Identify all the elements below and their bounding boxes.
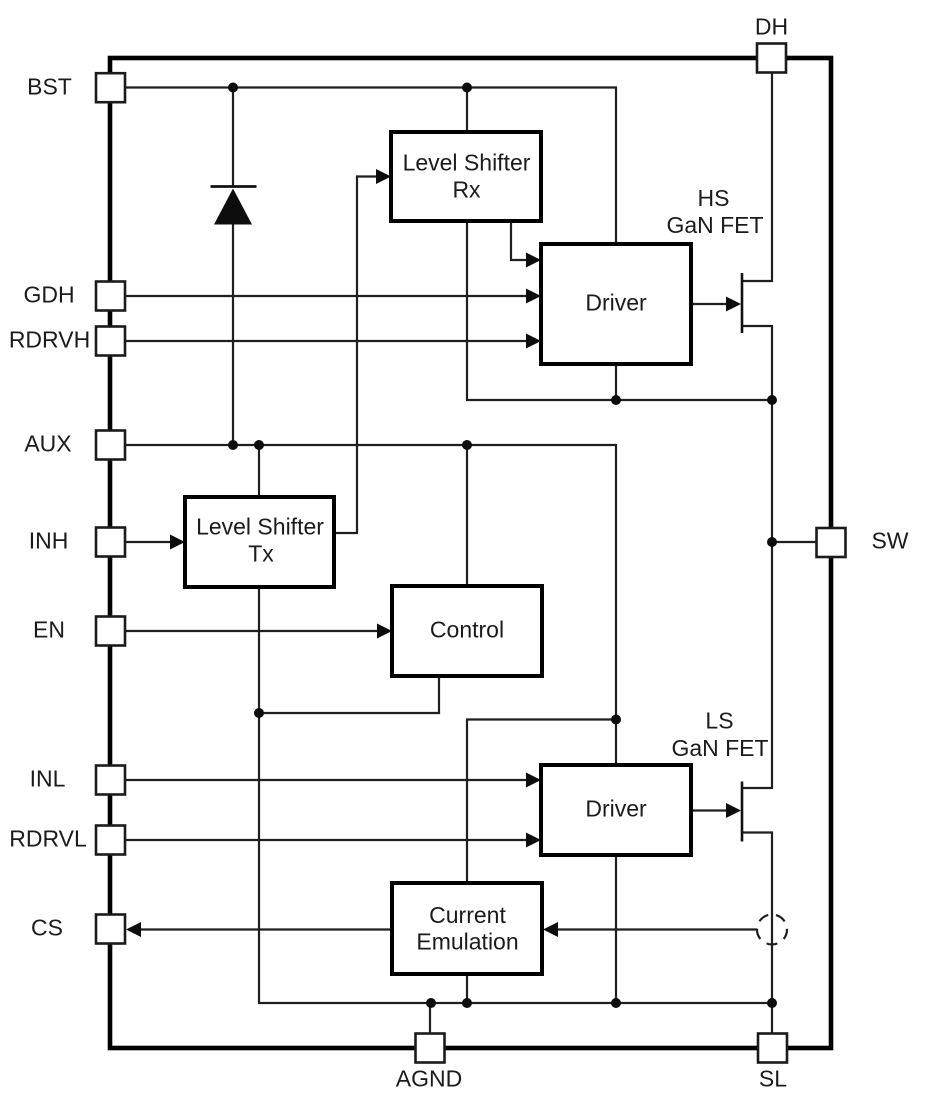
- svg-text:Driver: Driver: [585, 796, 647, 822]
- svg-text:EN: EN: [33, 617, 65, 643]
- svg-text:CS: CS: [31, 915, 63, 941]
- svg-text:Tx: Tx: [248, 540, 274, 566]
- svg-text:Level Shifter: Level Shifter: [403, 150, 531, 176]
- svg-text:Emulation: Emulation: [416, 929, 518, 955]
- svg-text:RDRVH: RDRVH: [9, 327, 90, 353]
- svg-text:AGND: AGND: [396, 1066, 462, 1092]
- svg-text:AUX: AUX: [24, 431, 71, 457]
- svg-text:Control: Control: [430, 617, 504, 643]
- svg-text:Level Shifter: Level Shifter: [196, 514, 324, 540]
- svg-text:GDH: GDH: [23, 282, 74, 308]
- svg-text:Driver: Driver: [585, 290, 647, 316]
- svg-text:RDRVL: RDRVL: [9, 826, 87, 852]
- svg-text:SW: SW: [871, 527, 908, 553]
- svg-text:SL: SL: [759, 1066, 787, 1092]
- svg-text:GaN FET: GaN FET: [666, 212, 763, 238]
- svg-text:INL: INL: [30, 766, 66, 792]
- svg-text:Rx: Rx: [452, 176, 481, 202]
- svg-text:Current: Current: [429, 902, 506, 928]
- svg-text:DH: DH: [755, 14, 788, 40]
- svg-text:BST: BST: [27, 74, 72, 100]
- svg-text:LS: LS: [705, 708, 733, 734]
- svg-text:GaN FET: GaN FET: [671, 735, 768, 761]
- svg-text:HS: HS: [698, 185, 730, 211]
- svg-text:INH: INH: [29, 528, 69, 554]
